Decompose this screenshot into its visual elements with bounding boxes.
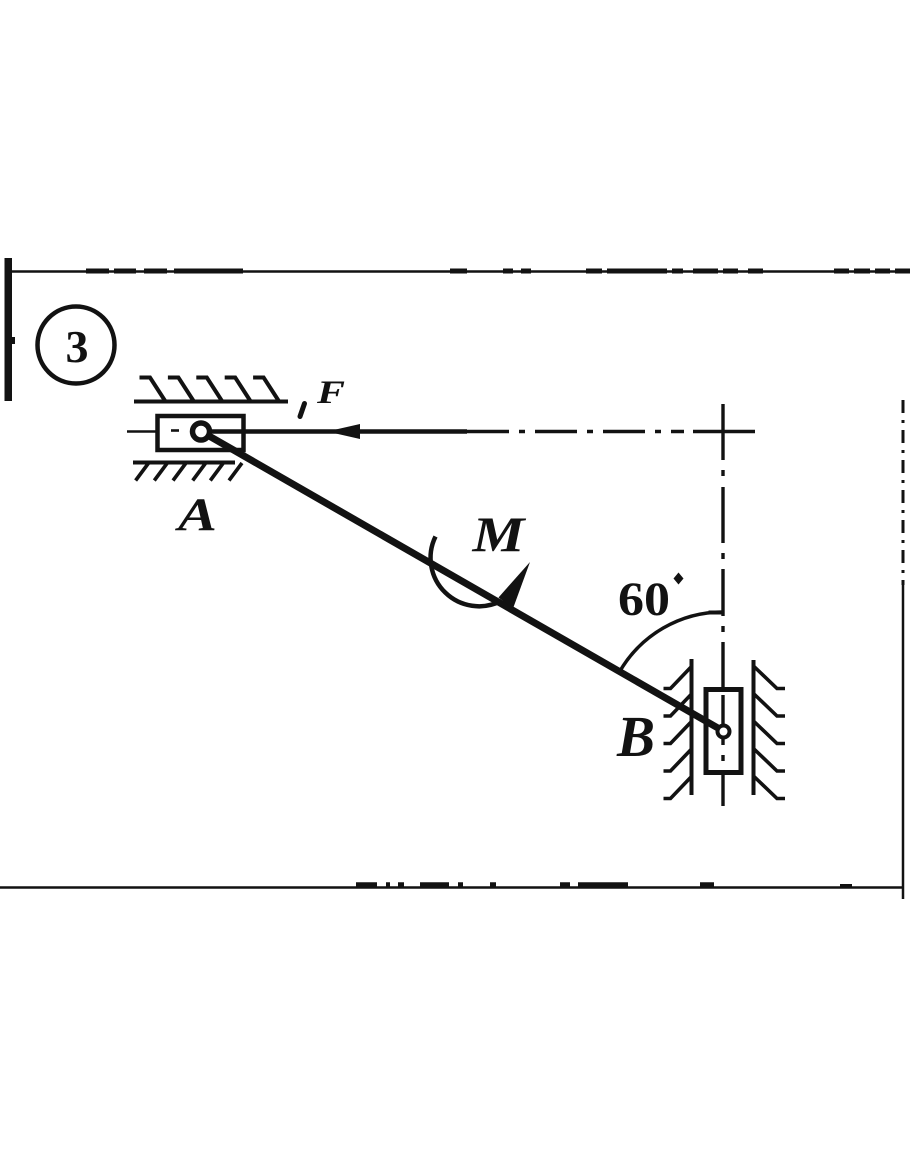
right border line (dashed upper part) xyxy=(902,400,905,585)
moment M arc xyxy=(431,537,502,607)
hatching right of B rail xyxy=(754,666,786,799)
left margin bar notch xyxy=(12,337,16,344)
slider block B xyxy=(706,690,741,773)
pin joint B xyxy=(718,726,730,738)
lower guide hatching at A: surface line xyxy=(133,461,235,465)
svg-text:60: 60 xyxy=(618,573,670,626)
guide rail left of B xyxy=(690,659,694,795)
hatching left of B rail xyxy=(664,667,692,799)
angle arc end tick xyxy=(709,611,724,615)
svg-text:B: B xyxy=(616,704,655,769)
left margin bar xyxy=(5,258,13,401)
right border line (solid lower part) xyxy=(902,585,905,899)
upper guide hatching at A: hatch strokes xyxy=(140,378,280,402)
top border thin rule xyxy=(10,270,910,272)
pin joint A xyxy=(193,423,210,440)
horizontal centerline: dash inside slider A xyxy=(171,429,179,432)
horizontal centerline: left stub xyxy=(127,430,156,433)
svg-text:3: 3 xyxy=(66,321,89,372)
lower guide hatching at A: hatch strokes xyxy=(136,463,242,481)
guide rail right of B xyxy=(752,660,756,795)
circled figure number 3 xyxy=(38,307,115,384)
upper guide hatching at A: surface line xyxy=(134,400,288,404)
svg-text:A: A xyxy=(174,489,217,541)
60 degree angle arc xyxy=(620,612,724,672)
top border thick dashes xyxy=(86,269,910,274)
svg-text:F: F xyxy=(316,375,345,411)
moment M arrowhead xyxy=(499,562,531,609)
slider block A xyxy=(158,416,244,450)
vertical centerline visible inside slider B xyxy=(721,695,724,761)
bottom border thick dashes xyxy=(356,882,714,887)
rod AB xyxy=(203,433,724,732)
vertical dash-dot centerline at B xyxy=(721,404,724,806)
force F line xyxy=(208,429,467,434)
bottom border solid line xyxy=(0,886,904,889)
degree mark xyxy=(674,573,684,585)
horizontal dash-dot centerline A to B axis xyxy=(467,430,755,433)
force F arrowhead xyxy=(327,424,360,439)
svg-text:M: M xyxy=(471,506,526,562)
bottom border short dash near right corner xyxy=(840,884,852,888)
comma tick before F xyxy=(300,404,305,417)
